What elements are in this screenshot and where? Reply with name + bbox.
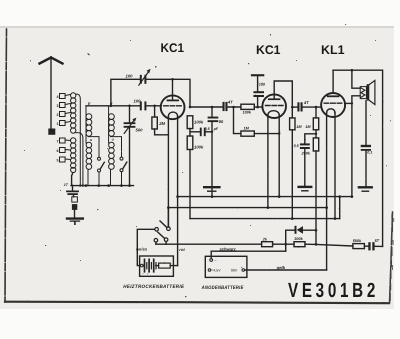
wire tube3 plate to speaker [345, 102, 352, 104]
svg-text:100k: 100k [194, 119, 204, 124]
wire antenna coil bottom to bus [72, 173, 74, 186]
svg-text:6: 6 [57, 149, 59, 153]
filament bus 1 [178, 196, 352, 198]
resistor 500k [353, 244, 365, 249]
switch heater pole 1 [155, 221, 170, 231]
speaker [360, 80, 375, 104]
ground below antenna capacitor [67, 219, 83, 225]
wire switch stubs [156, 208, 169, 245]
svg-text:1M: 1M [296, 125, 302, 129]
node dots on grid wire [110, 78, 174, 107]
svg-text:4T: 4T [303, 100, 309, 105]
svg-text:VE301B2: VE301B2 [288, 279, 379, 302]
capacitor 0,5 to ground tube3 [300, 134, 316, 186]
svg-text:500: 500 [136, 128, 144, 133]
anode battery box [205, 256, 247, 277]
svg-text:KC1: KC1 [256, 43, 281, 57]
capacitor 4T coupling first [223, 102, 228, 111]
riser bus1 to bus3 [339, 197, 341, 219]
tube2 filament leg right [278, 115, 280, 197]
anode bus 3 [190, 218, 340, 220]
svg-text:KC1: KC1 [161, 41, 185, 55]
svg-text:3: 3 [57, 104, 59, 108]
tube KC1 filament leg left [167, 116, 169, 227]
capacitor 1T antenna series [67, 185, 78, 217]
node dots tap leads [79, 184, 84, 186]
ground speaker [359, 187, 372, 191]
node dots output line [284, 243, 317, 246]
svg-text:90V: 90V [231, 269, 238, 273]
resistor 1M right grid chain [313, 107, 318, 138]
coil common bus wire [71, 185, 134, 187]
band switch S1 [88, 137, 104, 186]
RF coil 1 lower winding [86, 142, 92, 185]
scan noise speckles [24, 24, 391, 297]
resistor 300k [294, 242, 305, 247]
wire gelb riser [326, 208, 328, 270]
resistor 1M left bias chain [290, 107, 295, 219]
svg-text:1: 1 [57, 122, 59, 126]
svg-text:ANODENBATTERIE: ANODENBATTERIE [201, 285, 244, 291]
svg-text:2M: 2M [158, 121, 165, 126]
wire anode top loop [333, 70, 383, 246]
svg-text:5T: 5T [375, 239, 380, 243]
resistor 100k plate load lower [187, 136, 193, 219]
wire interstage coupling [190, 106, 241, 108]
capacitor 0,5uF decoupling [190, 128, 212, 137]
svg-text:rot: rot [179, 247, 185, 252]
svg-text:HEIZTROCKENBATTERIE: HEIZTROCKENBATTERIE [123, 284, 184, 290]
output line with resistors [156, 244, 383, 246]
svg-text:100: 100 [126, 74, 134, 79]
tube KL1 output [321, 70, 345, 117]
variable capacitor 500 tuning [124, 106, 136, 186]
resistor 2k [262, 242, 273, 247]
tap digits group1 [57, 95, 59, 163]
svg-text:4T: 4T [227, 100, 233, 105]
svg-text:KL1: KL1 [321, 43, 345, 57]
node dots on coil bus [85, 184, 131, 187]
svg-text:100k: 100k [243, 110, 252, 114]
antenna [40, 58, 63, 135]
svg-text:+: + [241, 265, 243, 269]
resistor 100k grid stopper [241, 104, 263, 109]
svg-text:−: − [142, 272, 144, 276]
resistor 100k plate load upper [187, 116, 193, 136]
svg-text:7: 7 [57, 139, 59, 143]
capacitor 80 cathode bypass [208, 107, 219, 197]
phono terminal bar [251, 74, 264, 91]
tube KC1 first stage [161, 79, 185, 119]
svg-text:weiss: weiss [136, 247, 148, 252]
svg-text:schwarz: schwarz [220, 246, 237, 251]
node dots interstage [189, 106, 317, 135]
svg-text:1M: 1M [305, 125, 311, 129]
frame bottom border [5, 302, 389, 304]
svg-text:500k: 500k [353, 239, 362, 243]
antenna coil L1 lower winding [71, 138, 76, 173]
diode rectifier bias [286, 226, 318, 251]
svg-text:80: 80 [219, 119, 224, 124]
RF coil rail 1 [85, 106, 87, 143]
ground middle [204, 187, 219, 191]
antenna tap switch contacts group 2 [60, 138, 71, 162]
RF coil rail 2 [108, 106, 110, 143]
tube KC1 second stage [262, 81, 292, 118]
resistor 1M grid leak tube2 [234, 107, 280, 136]
frame left border [5, 29, 7, 302]
heater battery box [140, 256, 178, 276]
capacitor 150 grid [253, 91, 264, 107]
capacitor 100 grid series [140, 101, 147, 110]
svg-text:0,1: 0,1 [367, 151, 372, 155]
svg-text:150: 150 [259, 82, 266, 86]
svg-text:+: + [147, 272, 149, 276]
svg-text:1M: 1M [244, 127, 250, 131]
wire weiss [137, 229, 155, 265]
tube2 filament leg left [267, 115, 269, 208]
svg-text:2k: 2k [262, 238, 268, 242]
node dots speaker [351, 69, 354, 105]
RF coil 1 upper winding [86, 114, 92, 137]
right edge scan speckles [390, 214, 395, 301]
filament bus 2 [168, 207, 326, 209]
resistor 200k grid chain [313, 138, 318, 244]
tube3 filament leg left [326, 113, 328, 208]
antenna tap switch contacts group 1 [60, 94, 71, 126]
wire gelb [245, 269, 327, 271]
node dot tube3 grid [291, 106, 317, 109]
node dots on buses [167, 132, 353, 220]
svg-text:200k: 200k [301, 152, 311, 156]
capacitor 4T coupling second [292, 102, 321, 111]
svg-text:gelb: gelb [276, 265, 286, 270]
switch heater pole 2 [154, 232, 168, 242]
svg-text:V: V [88, 101, 91, 106]
svg-text:300k: 300k [294, 237, 303, 241]
wire schwarz [211, 251, 286, 258]
svg-text:100: 100 [134, 98, 142, 103]
svg-text:100k: 100k [194, 145, 204, 150]
svg-text:=4,5V: =4,5V [211, 269, 221, 273]
ground tube3 [299, 187, 312, 191]
wire antenna coil tap leads [76, 94, 83, 186]
svg-text:4: 4 [57, 95, 59, 99]
svg-text:µF: µF [213, 127, 219, 131]
frame right border [390, 212, 393, 303]
resistor 2M grid leak [152, 106, 169, 135]
antenna coil L1 upper winding [71, 93, 76, 133]
wire feedback top [111, 79, 190, 107]
tube3 filament leg right [334, 113, 336, 219]
band switch S2 [111, 137, 127, 186]
grid wire node top of RF coils [86, 105, 161, 107]
svg-text:2: 2 [57, 113, 59, 117]
capacitor 5T output [368, 242, 374, 250]
wire speaker riser [352, 70, 360, 196]
RF coil 2 lower winding [109, 142, 115, 185]
svg-text:5: 5 [57, 158, 59, 162]
battery terminal labels [142, 258, 243, 276]
RF coil 2 upper winding [109, 114, 115, 137]
tube KC1 filament leg right [177, 116, 179, 265]
variable capacitor 100 regeneration [139, 69, 151, 85]
capacitor 0,1 across output [361, 101, 371, 187]
